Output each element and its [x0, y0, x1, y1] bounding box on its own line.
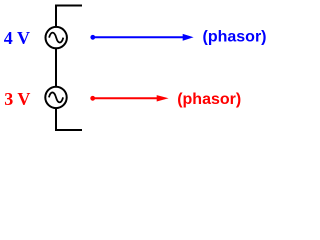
node dot (3 V phasor origin)	[90, 96, 95, 101]
phasor arrow 3 V head	[157, 95, 169, 101]
svg-text:(phasor): (phasor)	[177, 91, 241, 108]
wire bottom lead	[56, 108, 82, 130]
phasor arrow 3 V shaft	[93, 97, 158, 99]
svg-text:4 V: 4 V	[4, 28, 30, 48]
ac source V1	[46, 27, 67, 48]
wire top lead	[56, 6, 82, 27]
phasor arrow 4 V shaft	[93, 36, 184, 38]
svg-text:(phasor): (phasor)	[203, 28, 267, 45]
node dot (4 V phasor origin)	[90, 35, 95, 40]
ac source V2	[45, 87, 66, 108]
svg-text:3 V: 3 V	[4, 89, 30, 109]
wire middle	[55, 48, 57, 87]
phasor arrow 4 V head	[183, 34, 194, 41]
